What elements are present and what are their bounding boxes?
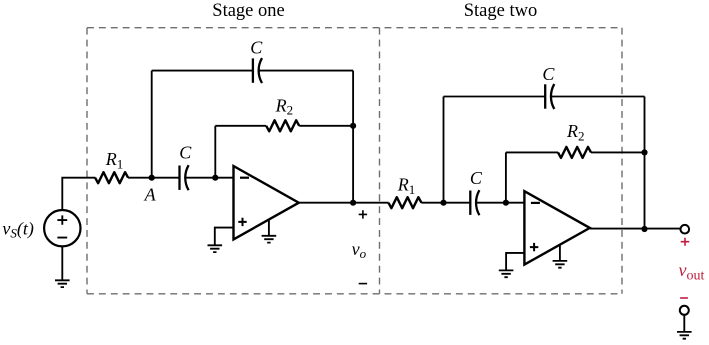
voltage source vS(t) <box>44 210 80 246</box>
ground (op-amp U1) <box>262 236 277 243</box>
ground (op-amp U2 non-inverting input) <box>499 270 514 277</box>
wire top feedback row left (stage one) <box>152 70 253 72</box>
wire R1 to node A to capacitor C <box>128 177 180 179</box>
resistor R2 (stage one) <box>266 120 299 131</box>
wire R1 to capacitor (stage two) <box>421 202 470 204</box>
wire R2 row left segment (stage two) <box>506 151 558 153</box>
op-amp U1 (stage one) <box>234 166 299 239</box>
ground (output terminal) <box>677 332 692 339</box>
svg-text:C: C <box>179 142 192 162</box>
wire op-amp U1 output to stage two R1 <box>299 202 389 204</box>
label minus (vo polarity) <box>359 283 367 285</box>
junction dot (inverting input node, stage one) <box>212 175 218 181</box>
wire capacitor to op-amp 2 inverting input <box>476 202 524 204</box>
wire capacitor to op-amp inverting input <box>185 177 233 179</box>
capacitor C (stage two input) <box>470 190 479 215</box>
junction dot (stage two input node) <box>440 200 446 206</box>
label minus (vout polarity, red) <box>680 297 688 299</box>
stage two dashed enclosure box <box>380 28 623 294</box>
wire top feedback row right (stage two) <box>551 96 644 98</box>
wire op-amp U2 bottom to ground <box>559 245 561 261</box>
wire op-amp U1 bottom to ground <box>268 220 270 236</box>
wire inverting node riser to R2 row <box>214 126 216 178</box>
wire lower terminal to ground <box>683 315 685 332</box>
ground (op-amp U2) <box>553 261 568 268</box>
wire R2 row right segment (stage two) <box>591 151 645 153</box>
wire inverting node riser to R2 row (stage two) <box>505 152 507 202</box>
junction dot (R2 to right riser, stage one) <box>350 123 356 129</box>
junction dot (stage one output) <box>350 200 356 206</box>
svg-text:Stage two: Stage two <box>464 1 537 21</box>
wire top feedback row left (stage two) <box>444 96 546 98</box>
label + (vo polarity) <box>359 210 367 218</box>
capacitor C (stage one feedback) <box>253 58 262 83</box>
junction dot (R2 to right riser, stage two) <box>641 149 647 155</box>
op-amp U2 (stage two) <box>524 191 589 264</box>
capacitor C (stage one input) <box>180 165 189 190</box>
svg-text:vS(t): vS(t) <box>2 219 34 241</box>
wire top feedback row right (stage one) <box>259 70 353 72</box>
resistor R2 (stage two) <box>558 147 591 158</box>
wire stage two input riser to top feedback row <box>443 97 445 203</box>
stage one dashed enclosure box <box>87 28 622 294</box>
resistor R1 (stage one) <box>95 172 128 183</box>
svg-text:C: C <box>250 37 263 57</box>
label + (vout polarity, red) <box>681 238 690 246</box>
output terminal (-) open circle <box>680 306 689 315</box>
output terminal (+) open circle <box>681 225 690 234</box>
svg-text:A: A <box>144 185 157 205</box>
ground (source) <box>55 280 70 287</box>
svg-text:C: C <box>470 168 483 188</box>
svg-text:Stage one: Stage one <box>212 1 284 21</box>
wire non-inverting input to ground (stage one) <box>215 228 234 246</box>
junction dot (inverting input node, stage two) <box>503 200 509 206</box>
wire R2 row right segment <box>299 125 353 127</box>
resistor R1 (stage two) <box>388 197 421 208</box>
wire non-inverting input to ground (stage two) <box>506 253 524 271</box>
svg-text:C: C <box>542 64 555 84</box>
ground (op-amp U1 non-inverting input) <box>208 245 223 252</box>
wire node A riser to top feedback row <box>151 71 153 178</box>
wire source bottom to ground <box>61 246 63 280</box>
node A junction dot <box>149 175 155 181</box>
wire R2 row left segment <box>215 125 266 127</box>
wire op-amp U2 output to terminal <box>590 228 681 230</box>
wire source top to R1 <box>62 178 95 210</box>
junction dot (stage two output) <box>641 226 647 232</box>
capacitor C (stage two feedback) <box>545 84 554 109</box>
wire right riser stage two (top row to output) <box>644 97 646 230</box>
wire right riser stage one (top row to output) <box>352 71 354 203</box>
